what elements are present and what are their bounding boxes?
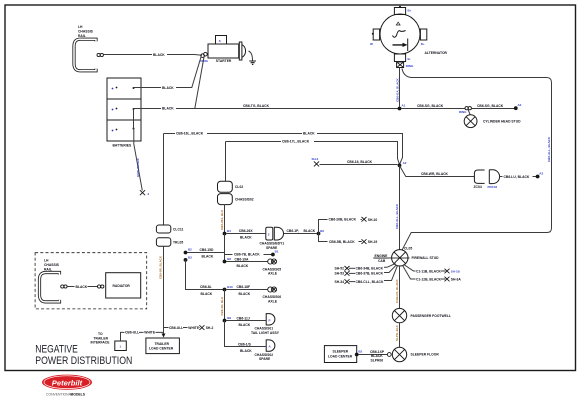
svg-text:B2: B2 [188,248,192,252]
wire stub SH-52 row [349,267,355,269]
svg-text:TRL05: TRL05 [173,241,183,245]
alternator U2 body circle [380,14,420,54]
svg-text:BLACK: BLACK [237,264,249,268]
svg-text:CB6-1P,: CB6-1P, [287,229,300,233]
svg-text:RING: RING [406,64,414,68]
svg-text:CB6-9R, BLACK: CB6-9R, BLACK [159,255,163,279]
wire B2x down to splice SH-19 [319,234,362,242]
starter ground wire [249,51,253,61]
svg-text:CB6-5B, BLACK: CB6-5B, BLACK [329,240,355,244]
wire B2x up to splice SH-10 [319,220,362,234]
alternator terminal tab B- [394,54,405,62]
battery cell 3 terminal dots [112,130,114,132]
alternator ring terminal X [397,63,402,67]
node B1 dot [271,253,275,257]
wire rail to radiator [67,286,97,288]
svg-text:BLACK: BLACK [153,53,165,57]
wire bus2 down to CL02 [225,142,227,182]
svg-text:CB6-1U, BLK: CB6-1U, BLK [220,296,224,316]
svg-text:CB6-18F: CB6-18F [237,285,251,289]
wire splice to node A2 [320,164,398,166]
wire trailer vertical branch CB6-ULL [164,327,201,329]
svg-text:CB6-26X: CB6-26X [239,229,254,233]
svg-text:B4: B4 [227,229,231,233]
svg-text:LH: LH [44,258,49,262]
battery cell 2 terminal dots [112,109,114,111]
wire B9 down to spare connector [225,321,266,347]
svg-text:B3: B3 [188,255,192,259]
firewall stud boundary line [373,257,409,259]
node A1 junction dot [398,107,402,111]
wire PDC04 to node A3 [500,176,536,178]
wire label BLACK (radiator) [75,284,88,288]
wire label WHITE (interface) [144,330,156,334]
dashed boundary box (radiator group) [35,253,147,309]
wire label BLACK (cell2) [161,106,176,110]
wire B3 down and right to B10 [186,260,225,290]
node B4 dot [223,232,227,236]
axle ring pair 2 [268,287,273,292]
wire label WHITE (branch) [188,325,200,329]
wire stud down to passenger footwell [399,265,401,308]
alternator terminal tab W [373,29,379,40]
wire label CB6-5B BLACK [328,240,359,244]
svg-text:W: W [370,42,373,46]
sleeper load center box [324,346,356,363]
alternator arrow bar [407,39,409,52]
svg-text:SH-1B: SH-1B [451,269,461,273]
svg-text:LH: LH [78,25,83,29]
svg-text:B+: B+ [408,9,412,13]
alternator terminal tab D+ [420,29,426,40]
wire chassis column vertical B4 to B6 [224,234,226,262]
alternator delta mark [396,22,400,25]
svg-text:ALTERNATOR: ALTERNATOR [425,51,448,55]
wire center vertical A2 to firewall stud [399,165,401,250]
svg-text:CB6-26X, BLK: CB6-26X, BLK [220,209,224,230]
svg-text:MODELS: MODELS [71,393,86,397]
svg-text:A1: A1 [402,104,406,108]
svg-text:RAIL: RAIL [78,34,86,38]
svg-text:CB6-WR, BLACK: CB6-WR, BLACK [421,172,449,176]
svg-text:SLEEPER: SLEEPER [333,350,349,354]
svg-text:SPARE: SPARE [259,357,271,361]
svg-text:B9: B9 [227,316,231,320]
svg-text:A2: A2 [518,103,522,107]
svg-text:CB6-ULL: CB6-ULL [169,326,183,330]
alternator terminal tab B+ [394,8,405,15]
svg-text:CB6-1/S: CB6-1/S [238,343,252,347]
svg-text:B2: B2 [320,229,324,233]
svg-text:CB6-34B, BLACK: CB6-34B, BLACK [356,267,384,271]
svg-text:CB6-7B, BLACK: CB6-7B, BLACK [234,252,260,256]
svg-text:P: P [269,318,271,322]
wire footwell to sleeper floor [399,323,401,347]
arrowhead into trailer load center [162,334,166,338]
svg-text:CHASSIS: CHASSIS [78,30,94,34]
svg-text:S: S [219,39,221,43]
node B9 dot [223,319,227,323]
svg-text:CL02: CL02 [235,185,243,189]
svg-text:CB6-17L, BLACK: CB6-17L, BLACK [282,140,310,144]
splice X SH-1B [445,269,450,274]
wire B10 to axle ring 2 [226,289,267,291]
svg-text:CONVENTIONAL: CONVENTIONAL [46,393,73,397]
wire battery cell1 to starter [134,56,202,87]
node A3 dot [536,175,540,179]
splice X SH-2 (engine ground lead) [314,161,319,166]
alternator sine symbol [393,31,406,38]
wire label CB6-26B BLACK [328,217,361,221]
trailer load center box [146,338,180,354]
starter nose dome [242,45,246,58]
svg-text:CB6-TG, BLACK: CB6-TG, BLACK [243,104,270,108]
svg-text:CB6-19A: CB6-19A [235,257,250,261]
splice X SH-52 [345,266,350,271]
connector ZC04 shell [474,170,484,183]
wire label CB6-ULL (interface) [125,330,140,334]
svg-text:BLACK: BLACK [76,285,88,289]
wire label CB6-16L BLACK [175,131,207,135]
svg-text:LOAD CENTER: LOAD CENTER [149,347,174,351]
svg-text:CB6-ALL, BLACK: CB6-ALL, BLACK [547,136,551,162]
ring terminal pair at chassis rail [97,53,100,56]
svg-text:CB6-ULL: CB6-ULL [125,331,139,335]
wire label CB6-ULL (branch) [169,325,184,329]
connector TRL05 shell [156,238,170,246]
wire B9 to tail light connector [226,320,266,322]
wire column to node B1 [225,254,272,256]
wire stub SH-3A row [441,278,446,280]
connector CHASSIS02 shell [218,194,233,205]
wire stub SH-34 row [349,281,355,283]
svg-text:SH-10: SH-10 [368,218,378,222]
svg-text:LOAD CENTER: LOAD CENTER [328,354,353,358]
svg-text:CLC11: CLC11 [173,228,184,232]
wire interface box to trailer feed [121,332,164,341]
ring junction pair (cylinder head) [465,107,468,110]
splice X SH-34 [345,279,350,284]
splice X SH-3A [445,277,450,282]
svg-text:PDC04: PDC04 [488,185,498,189]
svg-text:A2: A2 [403,161,407,165]
svg-text:INTERFACE: INTERFACE [91,341,111,345]
svg-text:BLACK: BLACK [202,254,214,258]
svg-text:GRN, BLACK: GRN, BLACK [136,157,140,177]
svg-text:D+: D+ [421,42,425,46]
svg-text:CL05: CL05 [404,247,412,251]
svg-text:B1: B1 [275,250,279,254]
svg-text:FIREWALL STUD: FIREWALL STUD [412,256,440,260]
splice X SH-53 [345,271,350,276]
svg-text:BLACK: BLACK [304,229,316,233]
wire B2 to chassis column [187,252,224,254]
svg-text:BLACK: BLACK [201,292,213,296]
splice X node 2 [140,190,145,195]
wire branch A2 to firewall connector pair [400,167,474,177]
wire stud to splice SH-53 [384,265,397,273]
wire B4 to chassis body connector [226,233,265,235]
node B3 dot [184,258,188,262]
svg-text:CB6-15D: CB6-15D [200,248,215,252]
wire stub rings to cylinder head stud [468,110,470,115]
svg-text:CB6-ALL, BLACK: CB6-ALL, BLACK [395,203,399,229]
radiator box [106,273,141,298]
svg-text:ZC04: ZC04 [474,185,482,189]
connector PDC04 shell [489,170,499,184]
svg-text:TRAILER: TRAILER [155,342,170,346]
passenger footwell stud symbol [392,308,406,322]
svg-text:SH-2: SH-2 [312,157,319,161]
wire sleeper load center to sleeper floor [358,354,387,356]
wire alternator loop right and down to firewall stud [402,69,552,251]
svg-text:SH-53: SH-53 [335,272,345,276]
svg-text:CHASSIS: CHASSIS [44,263,60,267]
battery cell 1 terminal dots [112,88,114,90]
firewall stud symbol CL05 [392,250,408,266]
node B2x junction dot [317,232,321,236]
svg-text:CB6-37B, BLACK: CB6-37B, BLACK [356,272,384,276]
wire connector to node B2x [284,233,317,235]
node A2 dot (cylinder head row) [514,106,518,110]
wire CHASSIS02 down to node B4 [224,205,226,232]
svg-text:B2: B2 [358,349,362,353]
trailer interface box 1 [115,341,127,351]
wire battery cell2 diagonal to starter [195,57,204,109]
wire A1 to ring junction [401,108,465,110]
wire label CB6-LU BLACK [503,174,533,178]
svg-text:Peterbilt: Peterbilt [52,378,83,387]
svg-text:CB6-26B, BLACK: CB6-26B, BLACK [329,218,357,222]
svg-text:TAIL LIGHT ASSY: TAIL LIGHT ASSY [251,331,280,335]
chassis rail bracket (bottom) [40,272,60,301]
wire left bus down to CLC11 [163,134,165,226]
svg-text:CB6-CLL, BLACK: CB6-CLL, BLACK [356,280,384,284]
wire B6 to axle ring 1 [226,261,267,263]
svg-text:WHITE: WHITE [144,331,156,335]
svg-text:SH-3A: SH-3A [451,277,462,281]
wire stub SH-53 row [349,272,355,274]
svg-text:SH-34: SH-34 [335,280,345,284]
svg-text:CB6-11J: CB6-11J [237,316,250,320]
svg-text:BLACK: BLACK [240,349,252,353]
svg-text:BLACK: BLACK [303,132,315,136]
Peterbilt logo oval [42,375,92,390]
alternator ring terminal box [397,62,404,68]
connector CHASSIS-BDY1 receptacle shell [274,227,283,240]
connector CHASSIS-BDY1 plug shell [266,227,273,240]
wire ring junction to node A2 [471,108,514,110]
wire second bus CB6-17L (y=141.2) [226,142,400,165]
svg-text:B6: B6 [227,257,231,261]
wire stud to splice SH-3A [403,265,416,279]
battery internal strap wire [133,109,135,129]
svg-text:BLACK: BLACK [162,86,174,90]
connector CLC11 shell [156,225,170,233]
svg-text:C1-11B, BLACK: C1-11B, BLACK [416,269,441,273]
splice X SH-2 [199,325,204,330]
splice X SH-10 [362,217,367,222]
wire stud to splice SH-1B [404,264,416,271]
wire label BLACK (top bus right) [302,131,317,135]
node B7 dot (sleeper) [355,353,359,357]
svg-text:CB6-16L, BLACK: CB6-16L, BLACK [176,132,204,136]
svg-text:CB6-LU, BLACK: CB6-LU, BLACK [504,175,530,179]
wire stud to splice SH-52 [384,264,396,268]
svg-text:SLPR06: SLPR06 [371,358,384,362]
cylinder head stud symbol [464,115,477,128]
starter U-starter body [208,44,239,58]
svg-text:BLACK: BLACK [239,292,251,296]
connector CHASSIS01 tail light shell [266,314,275,325]
svg-text:BLACK: BLACK [162,107,174,111]
svg-text:CAB: CAB [378,259,386,263]
wire alternator B- down to node A1 [399,68,401,107]
battery cell divider 1 [107,98,141,100]
wire B10 down to B9 [224,290,226,320]
svg-text:CHASSIS02: CHASSIS02 [235,198,254,202]
svg-text:C1-12B, BLACK: C1-12B, BLACK [416,277,442,281]
svg-text:SLPR, BLK: SLPR, BLK [395,324,399,341]
svg-text:BATTERIES: BATTERIES [113,144,132,148]
svg-text:B-: B- [408,57,411,61]
starter ring terminals [201,54,205,58]
svg-text:BLACK: BLACK [240,236,252,240]
svg-text:NEGATIVE: NEGATIVE [35,343,78,355]
svg-text:PASSENGER FOOTWELL: PASSENGER FOOTWELL [411,314,451,318]
svg-text:RING: RING [201,59,209,63]
svg-text:RAIL: RAIL [44,267,52,271]
axle ring pair 1 [268,259,273,264]
wire stud to splice SH-34 [384,265,398,280]
alternator arrow symbol [393,43,408,47]
wire TRL05 down to trailer load center [163,246,165,334]
ring terminal pair (radiator side) [98,285,101,288]
ground symbol at starter [249,61,256,64]
svg-text:WHITE: WHITE [188,326,200,330]
svg-text:CB6-8L: CB6-8L [200,285,212,289]
splice X SH-19 [362,239,367,244]
wire label BLACK (cell1) [161,86,176,90]
svg-text:CB6-GA, BLACK: CB6-GA, BLACK [395,78,399,102]
svg-text:SH-52: SH-52 [335,267,345,271]
node B2 dot [184,251,188,255]
starter solenoid box [216,36,227,45]
connector CL02 shell [218,181,233,192]
ring terminal pair (rail side) [61,285,64,288]
wire label CB6-17L BLACK [281,139,314,143]
connector CHASSIS02 spare shell [266,340,275,351]
svg-text:A3: A3 [539,172,543,176]
svg-text:ENGINE: ENGINE [375,254,389,258]
svg-text:POWER DISTRIBUTION: POWER DISTRIBUTION [35,355,132,367]
svg-text:SH-19: SH-19 [368,240,378,244]
svg-text:BLACK: BLACK [239,323,251,327]
starter end bell bar [239,42,242,60]
svg-text:SH-2: SH-2 [206,326,214,330]
wire stub SH-1B row [441,270,446,272]
svg-text:CAB-PA, BLACK: CAB-PA, BLACK [395,279,399,303]
svg-text:SLEEPER FLOOR: SLEEPER FLOOR [411,352,440,356]
wire battery cell3 down to splice 2 [134,129,143,191]
battery cell divider 2 [107,119,141,121]
wire label CB6-7B BLACK [233,252,264,256]
wire chassis rail to starter [103,54,202,57]
svg-text:CB6-16, BLACK: CB6-16, BLACK [347,160,373,164]
svg-text:RING: RING [459,110,467,114]
chassis rail bracket (top) [74,39,96,71]
svg-text:AXLE: AXLE [268,272,278,276]
wire top bus CB6-16L (y=133.4) [164,134,403,165]
wire label BLACK (chassis-starter) [152,53,167,57]
svg-text:CB6-SG, BLACK: CB6-SG, BLACK [477,104,504,108]
ring terminal (sleeper floor) [387,353,391,357]
svg-text:CB6-SG, BLACK: CB6-SG, BLACK [417,104,444,108]
svg-text:CYLINDER HEAD STUD: CYLINDER HEAD STUD [483,119,521,123]
wire battery cell2 to node A1 [134,108,400,110]
svg-text:STARTER: STARTER [216,59,232,63]
sleeper floor stud symbol [392,347,406,361]
node B6 dot [223,260,227,264]
svg-text:AXLE: AXLE [268,299,278,303]
node B10 dot [223,288,227,292]
MAIN SECTIONS INSERTED BELOW [74,25,400,196]
battery box [107,78,141,141]
svg-text:B10: B10 [227,285,233,289]
svg-text:RADIATOR: RADIATOR [113,284,131,288]
